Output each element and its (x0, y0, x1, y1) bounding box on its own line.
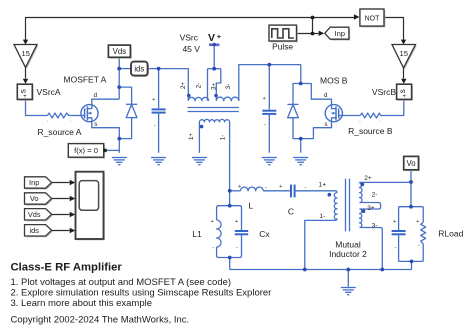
svg-text:+: + (217, 32, 222, 41)
svg-text:Copyright 2002-2024 The MathWo: Copyright 2002-2024 The MathWorks, Inc. (11, 315, 190, 326)
svg-text:L: L (249, 200, 254, 210)
svg-text:Inductor 2: Inductor 2 (329, 249, 367, 259)
svg-text:-: - (154, 123, 156, 129)
svg-text:2-: 2- (372, 192, 378, 199)
svg-text:VSrc: VSrc (180, 32, 199, 42)
svg-text:+: + (235, 219, 238, 225)
svg-text:VSrcA: VSrcA (37, 87, 61, 97)
svg-text:MOS B: MOS B (320, 76, 348, 86)
svg-text:V: V (208, 32, 215, 44)
svg-text:Inp: Inp (29, 178, 39, 187)
svg-text:-: - (264, 122, 266, 128)
svg-text:Cx: Cx (259, 229, 270, 239)
svg-text:R_source B: R_source B (348, 126, 393, 136)
svg-text:+: + (402, 93, 406, 100)
svg-text:Vds: Vds (113, 47, 127, 56)
svg-text:MOSFET A: MOSFET A (64, 75, 107, 85)
svg-text:-: - (418, 243, 420, 249)
svg-text:2+: 2+ (180, 82, 187, 89)
svg-text:+: + (238, 184, 241, 190)
svg-text:2+: 2+ (364, 175, 372, 182)
svg-text:+: + (393, 219, 396, 225)
svg-text:3+: 3+ (367, 205, 375, 212)
svg-text:s: s (324, 121, 327, 128)
svg-text:R_source A: R_source A (38, 127, 82, 137)
svg-text:Vo: Vo (30, 194, 39, 203)
svg-text:2. Explore simulation results: 2. Explore simulation results using Sims… (11, 288, 272, 299)
svg-text:+: + (263, 96, 266, 102)
svg-text:d: d (94, 92, 98, 99)
svg-text:1+: 1+ (319, 182, 327, 189)
svg-text:Vo: Vo (407, 159, 417, 168)
svg-text:-: - (305, 185, 307, 191)
svg-text:-: - (265, 185, 267, 191)
svg-text:RLoad: RLoad (438, 229, 463, 239)
svg-text:1-: 1- (319, 213, 325, 220)
svg-text:ids: ids (29, 226, 39, 235)
svg-text:ids: ids (134, 65, 144, 74)
svg-text:+: + (279, 184, 282, 190)
svg-text:s: s (94, 121, 97, 128)
svg-text:L1: L1 (192, 229, 202, 239)
svg-text:3-: 3- (372, 222, 378, 229)
svg-text:15: 15 (399, 49, 407, 58)
svg-text:-: - (395, 245, 397, 251)
svg-text:-: - (212, 245, 214, 251)
svg-text:+: + (211, 219, 214, 225)
svg-text:2-: 2- (195, 83, 202, 89)
svg-text:1-: 1- (219, 135, 226, 141)
svg-text:-: - (236, 245, 238, 251)
svg-text:NOT: NOT (365, 15, 381, 22)
svg-text:.: . (70, 118, 71, 124)
svg-text:3. Learn more about this examp: 3. Learn more about this example (11, 298, 153, 309)
svg-text:+: + (152, 97, 155, 103)
svg-text:15: 15 (21, 49, 29, 58)
svg-text:Vds: Vds (28, 210, 41, 219)
svg-text:+: + (23, 93, 27, 100)
svg-text:+: + (416, 219, 419, 225)
svg-text:Pulse: Pulse (272, 42, 293, 52)
svg-text:3+: 3+ (210, 83, 217, 90)
svg-text:d: d (324, 92, 328, 99)
svg-text:Class-E RF Amplifier: Class-E RF Amplifier (11, 262, 123, 274)
svg-text:VSrcB: VSrcB (372, 87, 396, 97)
svg-text:.: . (46, 118, 47, 124)
svg-text:1. Plot voltages at output and: 1. Plot voltages at output and MOSFET A … (11, 277, 232, 288)
svg-text:f(x) = 0: f(x) = 0 (74, 146, 98, 155)
svg-text:45 V: 45 V (182, 44, 200, 54)
svg-text:.: . (359, 118, 360, 124)
svg-text:3-: 3- (225, 84, 232, 90)
svg-text:.: . (380, 118, 381, 124)
svg-text:Inp: Inp (335, 29, 345, 38)
svg-text:C: C (288, 206, 294, 216)
svg-text:Mutual: Mutual (335, 239, 361, 249)
svg-text:1+: 1+ (188, 133, 195, 140)
